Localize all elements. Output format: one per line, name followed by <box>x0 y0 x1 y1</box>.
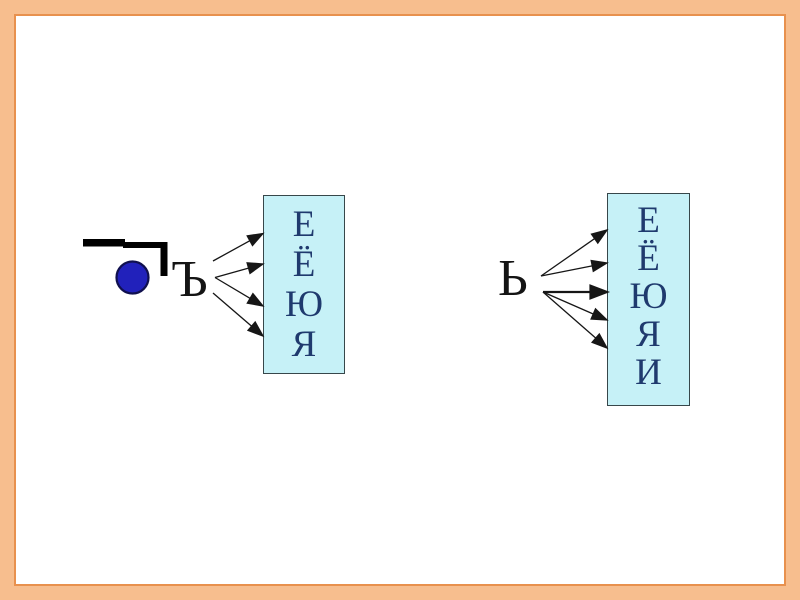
dark blue dot <box>117 262 149 294</box>
arrow R1 <box>541 230 607 276</box>
letter box left (Е Ё Ю Я) <box>263 195 345 374</box>
letter box right (Е Ё Ю Я И) <box>607 193 690 406</box>
arrow R5 <box>543 292 607 348</box>
black corner bracket stroke <box>83 239 168 276</box>
arrow L1 <box>213 234 263 262</box>
arrow L4 <box>213 293 263 336</box>
arrow R3 bold horizontal <box>543 286 607 299</box>
arrow R2 <box>541 261 607 277</box>
arrow R4 <box>543 292 607 320</box>
arrow L2 <box>215 263 263 278</box>
big letter hard sign <box>171 254 208 306</box>
arrow L3 <box>215 278 263 307</box>
arrows right group <box>541 230 607 348</box>
big letter soft sign <box>498 253 528 305</box>
arrows left group <box>213 234 263 337</box>
